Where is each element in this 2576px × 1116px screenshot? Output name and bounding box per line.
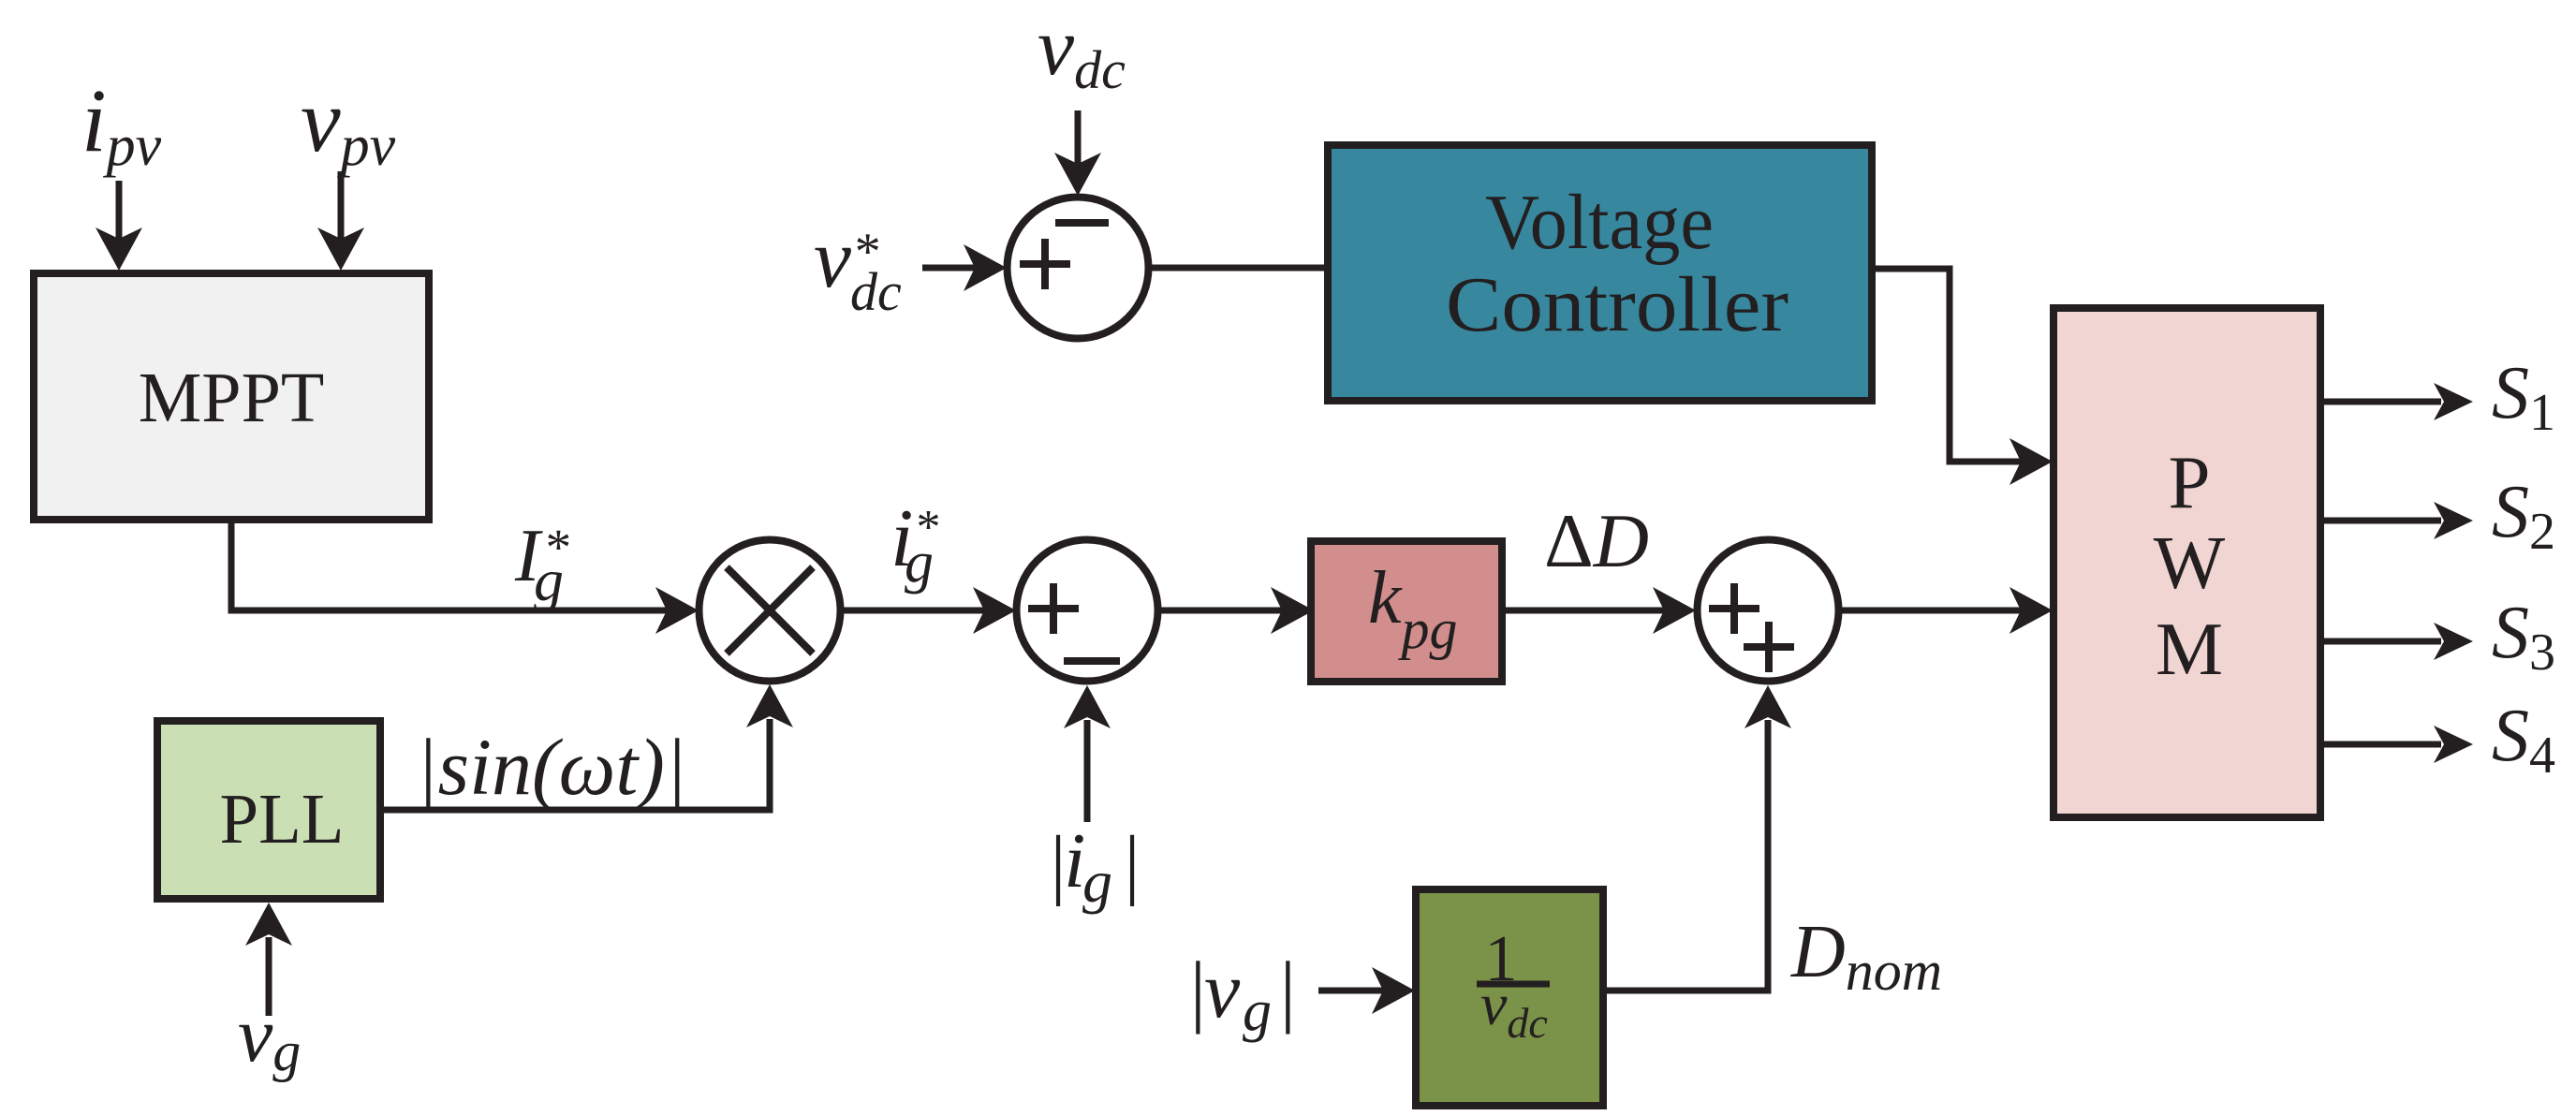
svg-text:ΔD: ΔD — [1544, 498, 1649, 583]
wire multiplier to summer SJ2 — [842, 608, 984, 614]
arrowhead S2 — [2434, 502, 2473, 539]
svg-text:g: g — [1082, 848, 1112, 915]
arrowhead into multiplier bottom — [746, 684, 793, 727]
arrowhead S1 — [2434, 383, 2473, 420]
wire |v_g| into 1/vdc — [1318, 988, 1383, 994]
arrowhead into SJ2 bottom — [1064, 685, 1111, 728]
wire PWM to S2 — [2324, 518, 2441, 524]
svg-text:dc: dc — [850, 261, 902, 322]
wire i_pv into MPPT — [116, 181, 123, 242]
arrowhead into SJ2 left — [973, 587, 1016, 634]
block PLL — [157, 721, 380, 899]
wire v_pv into MPPT — [338, 171, 345, 242]
svg-text:P: P — [2168, 440, 2210, 524]
svg-text:W: W — [2154, 521, 2226, 605]
arrowhead into SJ3 bottom — [1744, 685, 1791, 728]
svg-text:g: g — [534, 547, 564, 613]
wire PLL |sin(wt)| to multiplier — [380, 719, 770, 810]
wire MPPT output to multiplier — [231, 521, 667, 610]
arrowhead into SJ3 left — [1653, 587, 1696, 634]
svg-text:g: g — [1243, 979, 1272, 1043]
summing junction SJ1 (vdc) — [1008, 198, 1149, 339]
block k_pg — [1311, 541, 1502, 682]
arrowhead v_pv — [317, 228, 364, 271]
wire k_pg to SJ3 — [1506, 608, 1664, 614]
svg-text:MPPT: MPPT — [139, 359, 325, 437]
svg-text:g: g — [905, 531, 934, 595]
wire v_g into PLL — [266, 937, 272, 1016]
wire v_dc into SJ1 — [1075, 110, 1082, 165]
arrowhead into PWM from SJ3 — [2009, 587, 2053, 634]
svg-text:v: v — [814, 213, 851, 305]
wire SJ1 to Voltage Controller — [1148, 265, 1328, 272]
arrowhead v_dc_ref into SJ1 — [964, 244, 1007, 291]
block 1/v_dc — [1416, 889, 1603, 1106]
svg-text:|sin(ωt)|: |sin(ωt)| — [416, 722, 687, 812]
wire PWM to S4 — [2324, 742, 2441, 748]
summing junction SJ2 (current) — [1017, 540, 1158, 682]
wire |i_g| into SJ2 — [1084, 720, 1091, 822]
svg-text:M: M — [2156, 607, 2223, 691]
block Voltage Controller — [1328, 145, 1872, 401]
svg-text:|: | — [1120, 820, 1141, 907]
wire PWM to S1 — [2324, 399, 2441, 405]
summing junction SJ3 (duty) — [1698, 540, 1839, 682]
svg-text:Controller: Controller — [1446, 261, 1788, 348]
wire SJ3 to PWM — [1840, 608, 2021, 614]
arrowhead S3 — [2434, 623, 2473, 660]
arrowhead v_g into PLL — [245, 903, 292, 946]
wire PWM to S3 — [2324, 639, 2441, 645]
arrowhead i_pv — [96, 228, 142, 271]
arrowhead v_dc into SJ1 — [1054, 153, 1101, 196]
block PWM — [2053, 308, 2320, 817]
wire 1/vdc output D_nom into SJ3 — [1607, 720, 1768, 991]
arrowhead S4 — [2434, 726, 2473, 763]
arrowhead into PWM from Voltage Controller — [2009, 438, 2053, 485]
multiplier MUL — [699, 540, 841, 682]
svg-text:|: | — [1275, 945, 1298, 1035]
svg-text:PLL: PLL — [220, 780, 345, 859]
arrowhead into multiplier left — [655, 587, 699, 634]
arrowhead |v_g| into 1/vdc — [1372, 967, 1415, 1014]
wire v_dc_ref into SJ1 — [922, 265, 975, 272]
block MPPT — [34, 273, 429, 520]
wire SJ2 to k_pg — [1160, 608, 1282, 614]
arrowhead into k_pg — [1271, 587, 1314, 634]
svg-text:v: v — [1204, 945, 1241, 1035]
svg-text:Voltage: Voltage — [1485, 179, 1714, 266]
wire Voltage Controller to PWM — [1876, 269, 2021, 462]
